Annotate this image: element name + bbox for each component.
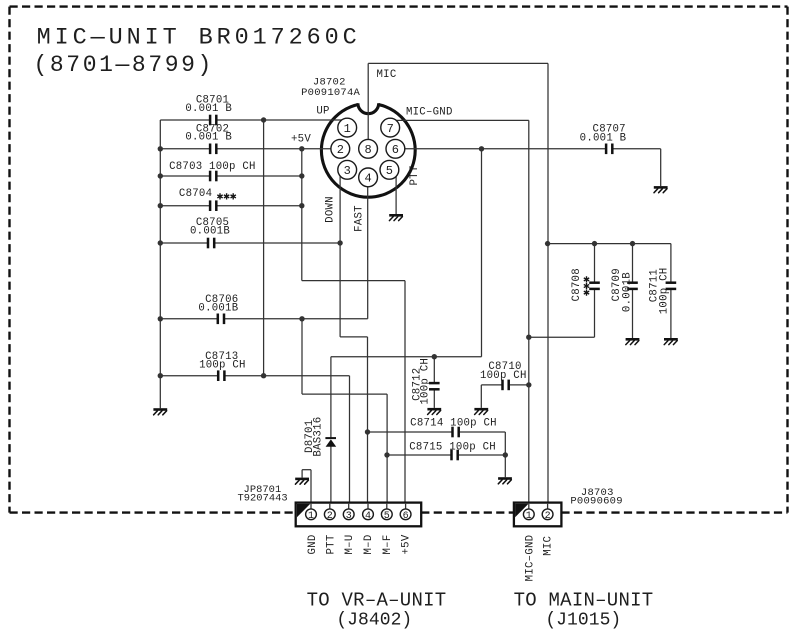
svg-text:6: 6	[403, 511, 409, 522]
svg-text:P0091074A: P0091074A	[301, 87, 360, 99]
svg-text:0.001B: 0.001B	[198, 303, 238, 315]
svg-text:0.001B: 0.001B	[190, 226, 230, 238]
svg-text:PTT: PTT	[409, 165, 421, 185]
svg-text:DOWN: DOWN	[325, 196, 337, 223]
svg-text:(J1015): (J1015)	[545, 611, 621, 631]
svg-text:100p CH: 100p CH	[480, 370, 527, 382]
svg-text:P0090609: P0090609	[570, 495, 622, 507]
svg-text:+5V: +5V	[291, 134, 311, 146]
svg-text:M–U: M–U	[344, 535, 356, 555]
svg-text:TO VR–A–UNIT: TO VR–A–UNIT	[307, 590, 447, 612]
svg-text:T9207443: T9207443	[237, 493, 287, 505]
svg-text:2: 2	[545, 511, 551, 522]
svg-text:C8704: C8704	[179, 188, 212, 200]
svg-text:3: 3	[344, 164, 351, 178]
svg-text:1: 1	[526, 511, 532, 522]
svg-text:BAS316: BAS316	[313, 417, 325, 457]
svg-text:MIC: MIC	[542, 536, 554, 556]
svg-text:0.001 B: 0.001 B	[185, 132, 232, 144]
svg-text:C8715 100p CH: C8715 100p CH	[409, 441, 496, 453]
svg-text:1: 1	[308, 511, 314, 522]
svg-text:100p CH: 100p CH	[420, 358, 432, 405]
svg-text:MIC—UNIT BR017260C: MIC—UNIT BR017260C	[37, 25, 361, 52]
svg-text:6: 6	[392, 143, 399, 157]
svg-text:GND: GND	[307, 535, 319, 555]
svg-text:0.001 B: 0.001 B	[185, 103, 232, 115]
svg-text:C8708: C8708	[571, 268, 583, 301]
svg-text:0.001B: 0.001B	[621, 272, 633, 312]
svg-text:C8714 100p CH: C8714 100p CH	[410, 418, 497, 430]
svg-text:8: 8	[364, 143, 371, 157]
svg-text:0.001 B: 0.001 B	[580, 133, 627, 145]
svg-text:+5V: +5V	[400, 534, 412, 554]
svg-text:100p CH: 100p CH	[199, 360, 246, 372]
svg-text:MIC: MIC	[377, 69, 397, 81]
svg-text:PTT: PTT	[325, 534, 337, 554]
svg-text:(J8402): (J8402)	[336, 611, 412, 631]
svg-text:4: 4	[365, 511, 371, 522]
svg-text:M–F: M–F	[382, 535, 394, 555]
svg-text:2: 2	[337, 143, 344, 157]
svg-text:2: 2	[327, 511, 333, 522]
svg-text:7: 7	[387, 122, 394, 136]
svg-text:3: 3	[346, 511, 352, 522]
svg-text:MIC–GND: MIC–GND	[406, 106, 453, 118]
svg-text:C8703 100p CH: C8703 100p CH	[169, 161, 256, 173]
svg-text:MIC–GND: MIC–GND	[524, 535, 536, 582]
svg-text:M–D: M–D	[363, 535, 375, 555]
svg-text:UP: UP	[316, 105, 329, 117]
svg-text:(8701—8799): (8701—8799)	[34, 52, 214, 78]
svg-text:TO MAIN–UNIT: TO MAIN–UNIT	[514, 590, 654, 612]
svg-text:FAST: FAST	[354, 205, 366, 232]
svg-text:5: 5	[386, 164, 393, 178]
svg-text:1: 1	[344, 122, 351, 136]
svg-text:5: 5	[384, 511, 390, 522]
svg-text:4: 4	[364, 172, 371, 186]
svg-text:100p CH: 100p CH	[658, 268, 670, 315]
